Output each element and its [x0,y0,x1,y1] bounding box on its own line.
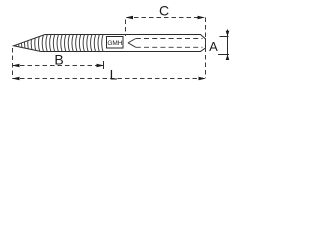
dimension A arrowheads [226,31,230,37]
extension line right (x=205.5) [205,18,207,79]
hidden thread root lines (dashed) [128,39,203,48]
dimension A vertical line [227,30,229,61]
dimension A bottom tick [218,54,229,56]
extension tick B-right (x=103.5) [103,61,105,69]
svg-text:C: C [159,3,169,19]
dimension B line [13,65,104,67]
label box GMH [107,37,124,49]
dimension C line [127,17,204,19]
dimension L line [13,78,206,80]
svg-text:B: B [54,52,63,68]
screw body outline [14,35,206,52]
extension line C-left (x=125.5) [125,20,127,37]
extension line left (x=12.5) [12,48,14,79]
svg-text:L: L [110,67,118,83]
wood thread arcs [16,34,103,52]
svg-text:A: A [209,39,218,54]
svg-text:GMH: GMH [107,40,122,47]
dimension A top tick [220,36,229,38]
